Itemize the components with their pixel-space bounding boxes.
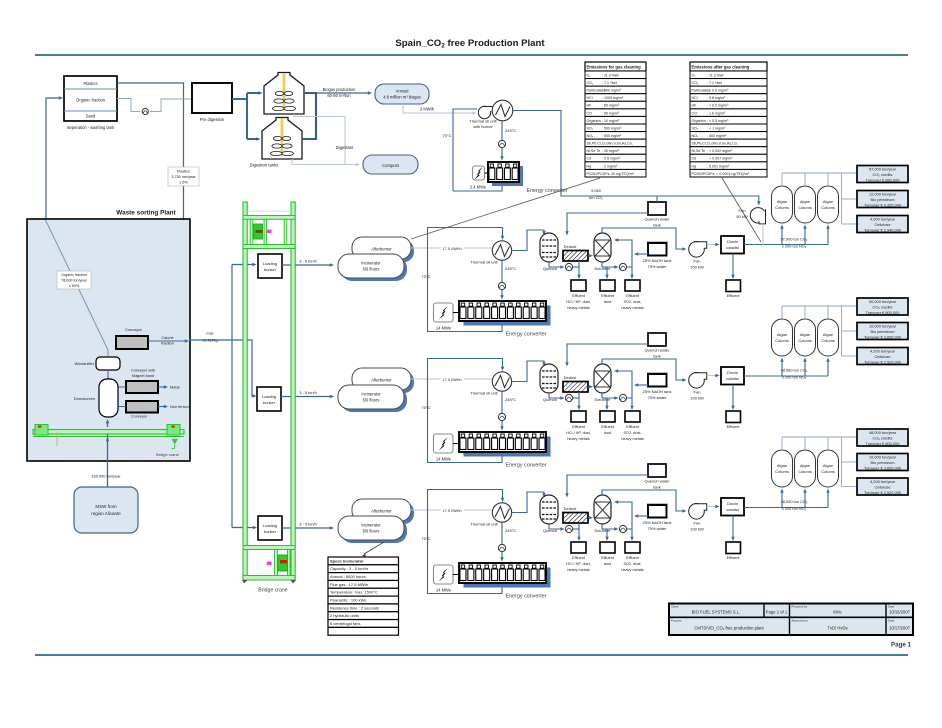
svg-text:NOₓ: NOₓ <box>587 134 594 138</box>
svg-text:12,000 ton/year: 12,000 ton/year <box>869 192 897 197</box>
svg-text:Plastics: Plastics <box>177 170 190 174</box>
svg-text:tank: tank <box>653 223 661 228</box>
svg-text:Calorie: Calorie <box>161 335 173 340</box>
svg-text:Digestion tanks: Digestion tanks <box>250 163 279 168</box>
svg-text:75% water: 75% water <box>648 526 668 531</box>
svg-text:6 centrifugal fans: 6 centrifugal fans <box>330 621 360 626</box>
svg-text:Date: Date <box>888 618 894 622</box>
svg-text:dust: dust <box>604 300 612 304</box>
svg-text:: < 0.2 mg/m³: : < 0.2 mg/m³ <box>707 104 729 108</box>
svg-text:Effluent: Effluent <box>727 556 741 560</box>
svg-text:: 60 mg/m³: : 60 mg/m³ <box>602 104 620 108</box>
svg-text:SO2, dust,: SO2, dust, <box>624 431 642 435</box>
svg-text:Digestant: Digestant <box>336 145 355 150</box>
svg-text:Turnover € 800,000: Turnover € 800,000 <box>866 441 901 446</box>
svg-text:Cd: Cd <box>587 157 592 161</box>
svg-text:: 11.3 %wt: : 11.3 %wt <box>602 73 619 77</box>
svg-text:fraction: fraction <box>161 341 174 346</box>
svg-text:MSW from: MSW from <box>95 504 116 509</box>
svg-text:bunker: bunker <box>264 529 277 534</box>
svg-text:x 200 ton NOₓ: x 200 ton NOₓ <box>782 244 807 249</box>
svg-text:Colums: Colums <box>775 338 789 343</box>
svg-text:Algae: Algae <box>777 199 788 204</box>
svg-text:57,000 ton CO₂: 57,000 ton CO₂ <box>781 237 808 242</box>
svg-text:10,000 ton/year: 10,000 ton/year <box>869 455 897 460</box>
svg-text:: 10 mg/m³: : 10 mg/m³ <box>602 119 620 123</box>
svg-text:Compost: Compost <box>382 163 400 168</box>
svg-text:Effluent: Effluent <box>601 294 615 298</box>
svg-text:17.5 MWth: 17.5 MWth <box>442 508 461 513</box>
svg-text:heavy metals: heavy metals <box>621 437 643 441</box>
svg-text:Prepared by: Prepared by <box>792 605 808 609</box>
svg-text:Algae: Algae <box>800 199 811 204</box>
svg-text:10,000 ton/year: 10,000 ton/year <box>869 324 897 329</box>
svg-text:Conveyor: Conveyor <box>125 327 142 332</box>
svg-text:Colums: Colums <box>821 205 835 210</box>
svg-text:Cellulose: Cellulose <box>874 354 890 359</box>
svg-text:Pparasitic : 100 kWe: Pparasitic : 100 kWe <box>330 598 367 603</box>
svg-text:CO: CO <box>587 111 593 115</box>
svg-text:Organic fraction: Organic fraction <box>61 273 87 277</box>
svg-text:: 11.3 %wt: : 11.3 %wt <box>707 73 724 77</box>
svg-text:HCl: HCl <box>692 96 698 100</box>
svg-text:Effluent: Effluent <box>572 294 586 298</box>
svg-text:Windshifter: Windshifter <box>75 361 95 366</box>
svg-text:60-80 m³/ton: 60-80 m³/ton <box>327 93 351 98</box>
svg-text:catalist: catalist <box>726 245 739 250</box>
svg-text:NOₓ: NOₓ <box>692 134 699 138</box>
svg-text:heavy metals: heavy metals <box>567 306 589 310</box>
svg-text:25% NaOH tank: 25% NaOH tank <box>643 520 672 525</box>
svg-text:48,000 ton/year: 48,000 ton/year <box>869 430 897 435</box>
svg-text:Effluent: Effluent <box>727 294 741 298</box>
svg-text:Afterburner: Afterburner <box>371 246 392 251</box>
svg-text:: 0.001 mg/m³: : 0.001 mg/m³ <box>707 164 730 168</box>
svg-text:Conveyor with: Conveyor with <box>131 369 155 373</box>
svg-text:2.4 MWe: 2.4 MWe <box>470 185 487 190</box>
svg-text:: < 1 mg/m³: : < 1 mg/m³ <box>707 126 726 130</box>
svg-text:: < 0.5 mg/m³: : < 0.5 mg/m³ <box>707 89 729 93</box>
svg-text:14 MWe: 14 MWe <box>436 326 452 331</box>
svg-text:Cellulose: Cellulose <box>874 222 890 227</box>
svg-text:245°C: 245°C <box>505 128 516 133</box>
svg-text:BIO FUEL SYSTEMS S.L.: BIO FUEL SYSTEMS S.L. <box>692 610 741 615</box>
svg-text:Effluent: Effluent <box>626 294 640 298</box>
svg-text:Seperation - washing tank: Seperation - washing tank <box>67 125 115 130</box>
svg-text:Bio petroleum: Bio petroleum <box>870 460 894 465</box>
svg-text:Turnover € 4,320,000: Turnover € 4,320,000 <box>864 203 902 208</box>
svg-text:: 7.1 %wt: : 7.1 %wt <box>707 81 722 85</box>
svg-text:5/6 floors: 5/6 floors <box>363 529 380 534</box>
svg-text:100 kW: 100 kW <box>690 396 704 401</box>
svg-text:SO₂: SO₂ <box>587 126 594 130</box>
svg-text:Process: Process <box>671 618 682 622</box>
svg-text:Annual: Annual <box>396 89 409 94</box>
svg-text:17.5 MWth: 17.5 MWth <box>442 377 461 382</box>
svg-text:: 1.6 mg/m³: : 1.6 mg/m³ <box>707 111 726 115</box>
svg-text:Algae: Algae <box>823 199 834 204</box>
svg-text:Algae: Algae <box>800 463 811 468</box>
svg-text:2 hydraulic units: 2 hydraulic units <box>330 613 359 618</box>
svg-text:: 40 mg/m³: : 40 mg/m³ <box>602 149 620 153</box>
svg-text:Bridge crane: Bridge crane <box>258 588 288 594</box>
svg-text:tank: tank <box>653 354 661 359</box>
svg-text:Turnover € 860,000: Turnover € 860,000 <box>866 178 901 183</box>
svg-text:Flue gas : 17.5 MWth: Flue gas : 17.5 MWth <box>330 582 368 587</box>
svg-text:heavy metals: heavy metals <box>621 568 643 572</box>
svg-text:Turnover € 3,600,000: Turnover € 3,600,000 <box>864 466 902 471</box>
svg-text:dust: dust <box>604 562 612 566</box>
svg-text:Client: Client <box>671 605 679 609</box>
svg-text:x 5%: x 5% <box>179 181 188 185</box>
svg-text:Thermal oil unit: Thermal oil unit <box>470 391 498 396</box>
svg-text:Colums: Colums <box>821 469 835 474</box>
svg-text:CO₂: CO₂ <box>587 81 594 85</box>
svg-text:Sb,Pb,Cr,Cu,Mn,V,Sn,As,Co,: Sb,Pb,Cr,Cu,Mn,V,Sn,As,Co, <box>587 142 633 146</box>
svg-text:: 500 mg/m³: : 500 mg/m³ <box>602 134 622 138</box>
svg-text:Dedust: Dedust <box>564 244 578 249</box>
svg-text:75% water: 75% water <box>648 264 668 269</box>
svg-text:Effluent: Effluent <box>626 425 640 429</box>
svg-text:HCl / HP, dust,: HCl / HP, dust, <box>566 300 591 304</box>
svg-text:Algae: Algae <box>823 463 834 468</box>
svg-text:78,000 ton/year: 78,000 ton/year <box>61 279 87 283</box>
svg-text:Turnover € 2,520,000: Turnover € 2,520,000 <box>864 490 902 495</box>
svg-text:5/6 floors: 5/6 floors <box>363 398 380 403</box>
svg-text:Loading: Loading <box>262 394 276 399</box>
svg-text:O₂: O₂ <box>692 73 697 77</box>
svg-text:Thermal oil unit: Thermal oil unit <box>469 119 497 124</box>
svg-text:Organic fraction: Organic fraction <box>76 98 106 103</box>
svg-text:Fan: Fan <box>694 521 701 526</box>
svg-text:Afterburner: Afterburner <box>371 508 392 513</box>
svg-text:Magnet band: Magnet band <box>132 374 154 378</box>
svg-text:O₂: O₂ <box>587 73 592 77</box>
svg-text:x 50%: x 50% <box>69 284 80 288</box>
svg-text:heavy metals: heavy metals <box>567 568 589 572</box>
svg-text:Turnover € 800,000: Turnover € 800,000 <box>866 310 901 315</box>
svg-text:Incinerator: Incinerator <box>361 261 381 266</box>
svg-text:Conveyor: Conveyor <box>131 415 148 419</box>
svg-text:SO2, dust,: SO2, dust, <box>624 562 642 566</box>
svg-text:Approved by: Approved by <box>792 618 809 622</box>
svg-text:CO: CO <box>692 111 698 115</box>
svg-text:Annual : 8000 hours: Annual : 8000 hours <box>330 574 366 579</box>
svg-text:: 50 mg/m³: : 50 mg/m³ <box>602 111 620 115</box>
svg-text:Thermal oil unit: Thermal oil unit <box>470 260 498 265</box>
svg-text:Bridge crane: Bridge crane <box>156 452 179 457</box>
svg-text:3 MWth: 3 MWth <box>420 107 435 112</box>
svg-text:4,900 ton/year: 4,900 ton/year <box>870 217 896 222</box>
svg-text:HF: HF <box>692 104 698 108</box>
svg-text:x 200 ton NO₂: x 200 ton NO₂ <box>782 506 807 511</box>
svg-text:Effluent: Effluent <box>601 556 615 560</box>
svg-text:Specs Incinerator: Specs Incinerator <box>330 558 364 563</box>
svg-text:150,000 ton/year: 150,000 ton/year <box>91 474 121 479</box>
svg-text:50,000 ton/year: 50,000 ton/year <box>869 299 897 304</box>
svg-text:3 - 5 ton/h: 3 - 5 ton/h <box>299 259 317 264</box>
svg-text:Capacity : 3 - 5 ton/hr: Capacity : 3 - 5 ton/hr <box>330 566 369 571</box>
svg-text:max: max <box>206 331 213 335</box>
svg-text:Organics: Organics <box>692 119 707 123</box>
svg-text:Afterburner: Afterburner <box>371 377 392 382</box>
svg-text:Turnover € 3,600,000: Turnover € 3,600,000 <box>864 335 902 340</box>
svg-text:CO₂ credits: CO₂ credits <box>873 305 893 310</box>
svg-text:PCDD/PCDFs: 20 ng/TEQ/m³: PCDD/PCDFs: 20 ng/TEQ/m³ <box>587 172 635 176</box>
svg-text:Energy converter: Energy converter <box>505 463 546 469</box>
svg-text:100 kW: 100 kW <box>690 265 704 270</box>
svg-text:Colums: Colums <box>821 338 835 343</box>
svg-text:Spain_CO2 free Production Plan: Spain_CO2 free Production Plant <box>395 38 545 50</box>
svg-text:245°C: 245°C <box>505 528 516 533</box>
svg-text:245°C: 245°C <box>505 397 516 402</box>
svg-text:4,200 ton/year: 4,200 ton/year <box>870 349 896 354</box>
svg-text:Colums: Colums <box>775 469 789 474</box>
svg-text:Colums: Colums <box>798 469 812 474</box>
svg-text:Biogas production: Biogas production <box>323 87 356 92</box>
svg-text:70°C: 70°C <box>422 405 431 410</box>
svg-text:Effluent: Effluent <box>727 425 741 429</box>
svg-text:25% NaOH tank: 25% NaOH tank <box>643 389 672 394</box>
svg-text:Residence time : 2 seconds: Residence time : 2 seconds <box>330 605 379 610</box>
svg-text:Loading: Loading <box>263 261 277 266</box>
svg-text:: < 0.5 mg/m³: : < 0.5 mg/m³ <box>707 119 729 123</box>
svg-text:HCl / HP, dust,: HCl / HP, dust, <box>566 431 591 435</box>
svg-text:Pre digestion: Pre digestion <box>200 117 225 122</box>
svg-text:MVe: MVe <box>833 610 842 615</box>
svg-text:: < 0.007 mg/m³: : < 0.007 mg/m³ <box>707 157 733 161</box>
svg-text:Colums: Colums <box>798 338 812 343</box>
svg-text:ton CO₂: ton CO₂ <box>589 195 603 200</box>
svg-text:Quench water: Quench water <box>645 217 671 222</box>
svg-text:Hg: Hg <box>587 164 592 168</box>
svg-text:HCl: HCl <box>587 96 593 100</box>
svg-text:catalist: catalist <box>726 507 739 512</box>
svg-text:3,750 ton/year: 3,750 ton/year <box>171 175 196 179</box>
svg-text:x 200 ton NOₓ: x 200 ton NOₓ <box>782 375 807 380</box>
svg-text:10/15/2007: 10/15/2007 <box>889 610 911 615</box>
svg-text:9,080: 9,080 <box>591 188 602 193</box>
svg-text:Temperature: max. 1500°C: Temperature: max. 1500°C <box>330 590 378 595</box>
svg-text:CO₂ credits: CO₂ credits <box>873 436 893 441</box>
svg-text:Cellulose: Cellulose <box>874 485 890 490</box>
svg-text:: 2 mg/m³: : 2 mg/m³ <box>602 164 618 168</box>
svg-text:70°C: 70°C <box>422 274 431 279</box>
svg-text:Turnover € 2,940,000: Turnover € 2,940,000 <box>864 228 902 233</box>
svg-text:SO₂: SO₂ <box>692 126 699 130</box>
svg-text:Dedust: Dedust <box>564 375 578 380</box>
svg-text:Drumscreen: Drumscreen <box>74 396 95 401</box>
svg-text:Algae: Algae <box>823 332 834 337</box>
svg-text:Cd: Cd <box>692 157 697 161</box>
svg-text:CO₂ credits: CO₂ credits <box>873 172 893 177</box>
svg-text:: 7.1 %wt: : 7.1 %wt <box>602 81 617 85</box>
svg-text:Dioxin: Dioxin <box>727 239 738 244</box>
svg-text:14 MWe: 14 MWe <box>436 588 452 593</box>
svg-text:57,000 ton/year: 57,000 ton/year <box>869 167 897 172</box>
svg-text:4,200 ton/year: 4,200 ton/year <box>870 479 896 484</box>
svg-text:Dioxin: Dioxin <box>727 370 738 375</box>
svg-text:SO2, dust,: SO2, dust, <box>624 300 642 304</box>
svg-text:Fan: Fan <box>694 259 701 264</box>
svg-text:region Alicante: region Alicante <box>91 511 121 516</box>
svg-text:4.8 million m³ biogas: 4.8 million m³ biogas <box>383 95 421 100</box>
svg-text:Algae: Algae <box>800 332 811 337</box>
svg-text:17.5 MWth: 17.5 MWth <box>442 246 461 251</box>
svg-text:Sand: Sand <box>86 114 96 119</box>
svg-text:Fan: Fan <box>694 390 701 395</box>
svg-text:Effluent: Effluent <box>626 556 640 560</box>
svg-text:Incinerator: Incinerator <box>361 392 381 397</box>
svg-text:Non ferrous: Non ferrous <box>170 404 190 409</box>
svg-text:Quench water: Quench water <box>645 479 671 484</box>
svg-text:: 0.8 mg/m³: : 0.8 mg/m³ <box>707 96 726 100</box>
svg-text:Dioxin: Dioxin <box>727 501 738 506</box>
svg-text:70°C: 70°C <box>422 536 431 541</box>
svg-text:Effluent: Effluent <box>572 556 586 560</box>
svg-text:70°C: 70°C <box>443 133 452 138</box>
svg-text:heavy metals: heavy metals <box>567 437 589 441</box>
svg-text:bunker: bunker <box>264 267 277 272</box>
svg-text:CO₂: CO₂ <box>692 81 699 85</box>
svg-text:Effluent: Effluent <box>601 425 615 429</box>
svg-text:Incinerator: Incinerator <box>361 523 381 528</box>
svg-text:100 kW: 100 kW <box>690 527 704 532</box>
svg-text:CMTS/VEI_CO₂ free production p: CMTS/VEI_CO₂ free production plant <box>694 626 764 631</box>
svg-text:Energy converter: Energy converter <box>505 332 546 338</box>
svg-text:48,090 ton CO₂: 48,090 ton CO₂ <box>781 499 808 504</box>
svg-text:Emissions after gas cleaning: Emissions after gas cleaning <box>692 65 750 70</box>
svg-text:HCl / HP, dust,: HCl / HP, dust, <box>566 562 591 566</box>
svg-text:Quench water: Quench water <box>645 348 671 353</box>
svg-text:Dedust: Dedust <box>564 506 578 511</box>
svg-text:Algae: Algae <box>777 332 788 337</box>
svg-text:Turnover € 2,520,000: Turnover € 2,520,000 <box>864 360 902 365</box>
svg-text:Bio petroleum: Bio petroleum <box>870 329 894 334</box>
svg-text:: 0.5 mg/m³: : 0.5 mg/m³ <box>602 157 621 161</box>
svg-text:Sb,Pb,Cr,Cu,Mn,V,Sn,As,Co,: Sb,Pb,Cr,Cu,Mn,V,Sn,As,Co, <box>692 142 738 146</box>
svg-text:PCDD/PCDFs: < 0.0001 ng/TEQ/m³: PCDD/PCDFs: < 0.0001 ng/TEQ/m³ <box>692 172 750 176</box>
svg-text:bunker: bunker <box>263 400 276 405</box>
svg-text:: 1000 mg/m³: : 1000 mg/m³ <box>602 96 624 100</box>
svg-text:Bio petroleum: Bio petroleum <box>870 197 894 202</box>
svg-text:48,080 ton CO₂: 48,080 ton CO₂ <box>781 368 808 373</box>
svg-text:3 - 5 ton/h: 3 - 5 ton/h <box>299 522 317 527</box>
svg-text:Page 1: Page 1 <box>891 642 912 649</box>
svg-text:Algae: Algae <box>777 463 788 468</box>
svg-text:Page 1 of 1: Page 1 of 1 <box>766 610 788 615</box>
svg-text:Effluent: Effluent <box>572 425 586 429</box>
svg-text:Hg: Hg <box>692 164 697 168</box>
svg-text:25% NaOH tank: 25% NaOH tank <box>643 258 672 263</box>
svg-text:16 MJ/kg: 16 MJ/kg <box>202 339 217 343</box>
svg-text:: 500 mg/m³: : 500 mg/m³ <box>602 89 622 93</box>
svg-text:: < 0.002 mg/m³: : < 0.002 mg/m³ <box>707 149 733 153</box>
svg-text:245°C: 245°C <box>505 266 516 271</box>
svg-text:Organics: Organics <box>587 119 602 123</box>
svg-text:Emissions for gas cleaning: Emissions for gas cleaning <box>587 65 642 70</box>
svg-text:10/17/2007: 10/17/2007 <box>889 626 911 631</box>
svg-text:Thermal oil unit: Thermal oil unit <box>470 522 498 527</box>
svg-text:Date: Date <box>888 605 894 609</box>
svg-text:75% water: 75% water <box>648 395 668 400</box>
svg-text:Ni,Se,Te: Ni,Se,Te <box>587 149 601 153</box>
svg-text:3 - 5 ton/h: 3 - 5 ton/h <box>299 390 317 395</box>
svg-text:with burner: with burner <box>473 124 493 129</box>
svg-text:heavy metals: heavy metals <box>621 306 643 310</box>
svg-text:dust: dust <box>604 431 612 435</box>
svg-text:14 MWe: 14 MWe <box>436 457 452 462</box>
svg-text:Plastics: Plastics <box>83 81 97 86</box>
svg-text:: 500 mg/m³: : 500 mg/m³ <box>602 126 622 130</box>
svg-text:tank: tank <box>653 485 661 490</box>
svg-text:Colums: Colums <box>775 205 789 210</box>
svg-text:HF: HF <box>587 104 593 108</box>
svg-text:Energy converter: Energy converter <box>505 594 546 600</box>
svg-text:Loading: Loading <box>263 523 277 528</box>
svg-text:Metal: Metal <box>170 385 180 390</box>
svg-text:: 500 mg/m³: : 500 mg/m³ <box>707 134 727 138</box>
svg-text:catalist: catalist <box>726 376 739 381</box>
svg-text:5/6 floors: 5/6 floors <box>363 267 380 272</box>
svg-text:Ni,Se,Te: Ni,Se,Te <box>692 149 706 153</box>
svg-text:TvD/ HvDs: TvD/ HvDs <box>827 626 847 631</box>
svg-text:Colums: Colums <box>798 205 812 210</box>
svg-text:Waste sorting Plant: Waste sorting Plant <box>116 210 176 217</box>
